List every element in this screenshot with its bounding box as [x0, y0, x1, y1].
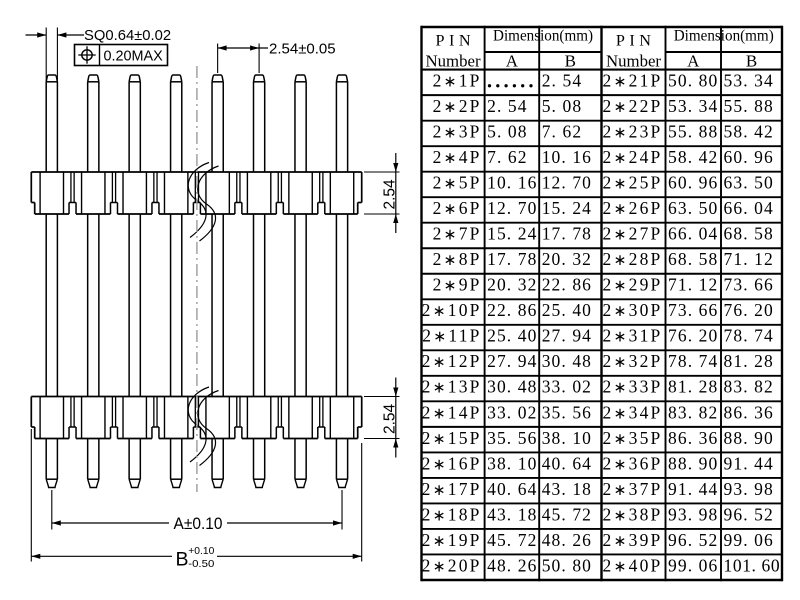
svg-text:68. 58: 68. 58	[668, 249, 718, 269]
svg-text:63. 50: 63. 50	[668, 198, 718, 218]
svg-text:B: B	[176, 548, 189, 570]
svg-text:35. 56: 35. 56	[542, 402, 592, 422]
svg-text:91. 44: 91. 44	[724, 453, 774, 473]
svg-text:Dimension(mm): Dimension(mm)	[674, 28, 774, 45]
svg-text:27. 94: 27. 94	[487, 351, 537, 371]
svg-text:10. 16: 10. 16	[487, 173, 537, 193]
svg-text:2∗37P: 2∗37P	[603, 479, 663, 499]
svg-text:A: A	[687, 52, 700, 71]
svg-text:30. 48: 30. 48	[542, 351, 592, 371]
svg-text:22. 86: 22. 86	[542, 275, 592, 295]
svg-text:81. 28: 81. 28	[668, 377, 718, 397]
svg-text:7. 62: 7. 62	[542, 122, 583, 142]
svg-text:96. 52: 96. 52	[668, 530, 718, 550]
svg-text:5. 08: 5. 08	[487, 122, 527, 142]
svg-text:2∗6P: 2∗6P	[433, 198, 482, 218]
svg-text:2∗27P: 2∗27P	[603, 224, 663, 244]
svg-text:2∗14P: 2∗14P	[422, 402, 482, 422]
svg-text:71. 12: 71. 12	[668, 275, 718, 295]
svg-text:12. 70: 12. 70	[487, 198, 537, 218]
svg-text:63. 50: 63. 50	[724, 173, 774, 193]
svg-text:53. 34: 53. 34	[724, 71, 774, 91]
svg-text:78. 74: 78. 74	[668, 351, 718, 371]
svg-text:35. 56: 35. 56	[487, 428, 537, 448]
svg-text:-0.50: -0.50	[188, 559, 214, 570]
svg-text:99. 06: 99. 06	[668, 555, 718, 575]
svg-text:88. 90: 88. 90	[724, 428, 774, 448]
svg-text:2∗1P: 2∗1P	[433, 71, 482, 91]
svg-text:2∗15P: 2∗15P	[422, 428, 482, 448]
svg-text:2∗36P: 2∗36P	[603, 453, 663, 473]
svg-text:83. 82: 83. 82	[668, 402, 718, 422]
svg-text:66. 04: 66. 04	[724, 198, 774, 218]
svg-text:7. 62: 7. 62	[487, 147, 527, 167]
svg-text:93. 98: 93. 98	[668, 504, 718, 524]
svg-text:73. 66: 73. 66	[668, 300, 718, 320]
svg-text:20. 32: 20. 32	[542, 249, 592, 269]
svg-text:99. 06: 99. 06	[724, 530, 774, 550]
svg-text:2∗34P: 2∗34P	[603, 402, 663, 422]
svg-text:2∗16P: 2∗16P	[422, 453, 482, 473]
svg-text:53. 34: 53. 34	[668, 96, 718, 116]
svg-text:12. 70: 12. 70	[542, 173, 592, 193]
svg-text:5. 08: 5. 08	[542, 96, 583, 116]
svg-text:Number: Number	[606, 51, 661, 70]
svg-text:73. 66: 73. 66	[724, 275, 774, 295]
svg-text:25. 40: 25. 40	[487, 326, 537, 346]
svg-text:30. 48: 30. 48	[487, 377, 537, 397]
svg-text:25. 40: 25. 40	[542, 300, 592, 320]
svg-text:Number: Number	[426, 51, 481, 70]
svg-text:48. 26: 48. 26	[487, 555, 537, 575]
svg-text:78. 74: 78. 74	[724, 326, 774, 346]
svg-text:2.54: 2.54	[381, 179, 398, 210]
svg-text:2∗39P: 2∗39P	[603, 530, 663, 550]
svg-text:45. 72: 45. 72	[542, 504, 592, 524]
svg-text:17. 78: 17. 78	[487, 249, 537, 269]
svg-text:48. 26: 48. 26	[542, 530, 592, 550]
svg-text:83. 82: 83. 82	[724, 377, 774, 397]
svg-text:15. 24: 15. 24	[487, 224, 537, 244]
svg-text:15. 24: 15. 24	[542, 198, 592, 218]
svg-text:60. 96: 60. 96	[668, 173, 718, 193]
svg-text:A: A	[506, 52, 519, 71]
svg-text:2∗18P: 2∗18P	[422, 504, 482, 524]
svg-text:38. 10: 38. 10	[487, 453, 537, 473]
svg-text:A±0.10: A±0.10	[174, 515, 223, 533]
svg-text:2∗4P: 2∗4P	[433, 147, 482, 167]
svg-text:93. 98: 93. 98	[724, 479, 774, 499]
svg-text:2∗2P: 2∗2P	[433, 96, 482, 116]
svg-text:10. 16: 10. 16	[542, 147, 592, 167]
svg-text:+0.10: +0.10	[188, 546, 214, 557]
svg-text:88. 90: 88. 90	[668, 453, 718, 473]
svg-text:50. 80: 50. 80	[668, 71, 718, 91]
svg-text:33. 02: 33. 02	[487, 402, 537, 422]
svg-text:20. 32: 20. 32	[487, 275, 537, 295]
svg-text:17. 78: 17. 78	[542, 224, 592, 244]
svg-text:27. 94: 27. 94	[542, 326, 592, 346]
svg-text:43. 18: 43. 18	[542, 479, 592, 499]
svg-text:81. 28: 81. 28	[724, 351, 774, 371]
svg-text:71. 12: 71. 12	[724, 249, 774, 269]
svg-text:2.54±0.05: 2.54±0.05	[269, 40, 336, 57]
svg-text:2∗29P: 2∗29P	[603, 275, 663, 295]
svg-text:2∗19P: 2∗19P	[422, 530, 482, 550]
svg-text:B: B	[565, 52, 576, 71]
svg-text:2∗23P: 2∗23P	[603, 122, 663, 142]
svg-text:2∗33P: 2∗33P	[603, 377, 663, 397]
svg-text:2∗13P: 2∗13P	[422, 377, 482, 397]
svg-text:2∗25P: 2∗25P	[603, 173, 663, 193]
svg-text:0.20MAX: 0.20MAX	[104, 48, 164, 64]
svg-text:2∗31P: 2∗31P	[603, 326, 663, 346]
svg-text:58. 42: 58. 42	[668, 147, 718, 167]
svg-text:43. 18: 43. 18	[487, 504, 537, 524]
svg-text:60. 96: 60. 96	[724, 147, 774, 167]
svg-text:68. 58: 68. 58	[724, 224, 774, 244]
svg-text:2∗26P: 2∗26P	[603, 198, 663, 218]
svg-text:2∗3P: 2∗3P	[433, 122, 482, 142]
svg-text:96. 52: 96. 52	[724, 504, 774, 524]
svg-text:2.54: 2.54	[381, 403, 398, 434]
svg-text:91. 44: 91. 44	[668, 479, 718, 499]
svg-text:45. 72: 45. 72	[487, 530, 537, 550]
svg-text:86. 36: 86. 36	[668, 428, 718, 448]
svg-text:2. 54: 2. 54	[542, 71, 583, 91]
svg-text:2∗9P: 2∗9P	[433, 275, 482, 295]
svg-text:2∗21P: 2∗21P	[603, 71, 663, 91]
svg-text:40. 64: 40. 64	[487, 479, 537, 499]
svg-text:38. 10: 38. 10	[542, 428, 592, 448]
svg-text:2∗24P: 2∗24P	[603, 147, 663, 167]
svg-text:76. 20: 76. 20	[668, 326, 718, 346]
svg-text:2∗38P: 2∗38P	[603, 504, 663, 524]
svg-text:2∗28P: 2∗28P	[603, 249, 663, 269]
svg-text:55. 88: 55. 88	[724, 96, 774, 116]
svg-text:101. 60: 101. 60	[724, 555, 781, 575]
svg-text:2∗8P: 2∗8P	[433, 249, 482, 269]
svg-text:2∗30P: 2∗30P	[603, 300, 663, 320]
svg-text:2. 54: 2. 54	[487, 96, 527, 116]
svg-text:PIN: PIN	[435, 31, 475, 49]
svg-text:2∗7P: 2∗7P	[433, 224, 482, 244]
svg-text:55. 88: 55. 88	[668, 122, 718, 142]
svg-text:40. 64: 40. 64	[542, 453, 592, 473]
svg-text:2∗22P: 2∗22P	[603, 96, 663, 116]
svg-text:2∗17P: 2∗17P	[422, 479, 482, 499]
svg-text:33. 02: 33. 02	[542, 377, 592, 397]
svg-text:58. 42: 58. 42	[724, 122, 774, 142]
svg-text:PIN: PIN	[616, 31, 656, 49]
svg-text:2∗32P: 2∗32P	[603, 351, 663, 371]
svg-text:2∗10P: 2∗10P	[422, 300, 482, 320]
svg-text:2∗35P: 2∗35P	[603, 428, 663, 448]
svg-text:2∗5P: 2∗5P	[433, 173, 482, 193]
svg-text:76. 20: 76. 20	[724, 300, 774, 320]
svg-text:22. 86: 22. 86	[487, 300, 537, 320]
svg-text:2∗20P: 2∗20P	[422, 555, 482, 575]
svg-text:2∗40P: 2∗40P	[603, 555, 663, 575]
svg-text:2∗12P: 2∗12P	[422, 351, 482, 371]
svg-text:2∗11P: 2∗11P	[422, 326, 481, 346]
svg-text:Dimension(mm): Dimension(mm)	[493, 28, 593, 45]
svg-text:86. 36: 86. 36	[724, 402, 774, 422]
svg-text:50. 80: 50. 80	[542, 555, 592, 575]
svg-text:SQ0.64±0.02: SQ0.64±0.02	[84, 28, 171, 44]
svg-text:B: B	[746, 52, 757, 71]
svg-text:66. 04: 66. 04	[668, 224, 718, 244]
